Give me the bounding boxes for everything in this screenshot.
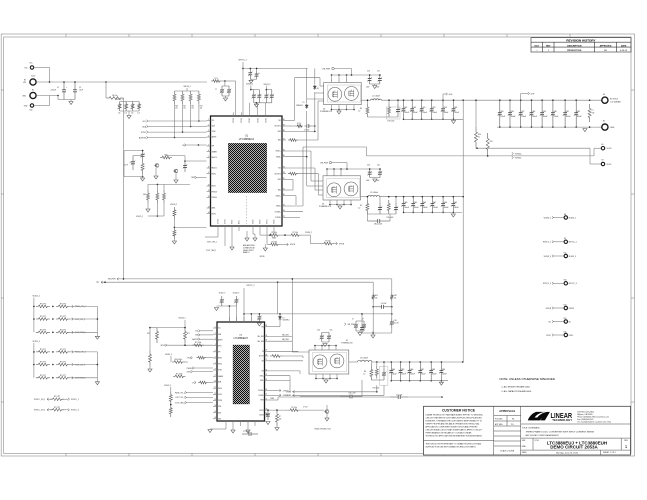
- svg-text:R13: R13: [200, 106, 203, 108]
- ground phase2 block: [338, 206, 342, 209]
- IC U2 left pin 8: [213, 369, 217, 371]
- resistor: [390, 293, 393, 301]
- svg-text:VOUT_CFG_2: VOUT_CFG_2: [207, 242, 217, 244]
- svg-text:HOWEVER, IT REMAINS THE CUSTOM: HOWEVER, IT REMAINS THE CUSTOMER'S RESPO…: [426, 419, 483, 422]
- svg-text:VCFG1: VCFG1: [225, 219, 227, 224]
- power block U4 bottom pins: [329, 200, 331, 205]
- svg-text:C58: C58: [432, 369, 435, 371]
- svg-text:E16: E16: [564, 331, 567, 333]
- wire: [174, 104, 176, 138]
- junction: [395, 196, 397, 198]
- wire netB left bus: [33, 346, 35, 378]
- resistor: [372, 293, 375, 301]
- svg-text:1. ALL RESISTORS ARE 0402.: 1. ALL RESISTORS ARE 0402.: [501, 386, 530, 389]
- svg-text:SCL: SCL: [195, 331, 198, 333]
- IC U1 right pin 29: [282, 205, 286, 207]
- IC U1 right pin 37: [282, 139, 286, 141]
- wire: [49, 96, 51, 106]
- svg-text:VDD33_3: VDD33_3: [165, 354, 172, 356]
- wire: [371, 379, 384, 381]
- svg-text:C8: C8: [130, 162, 132, 164]
- terminal: [602, 124, 608, 130]
- svg-text:TECHNOLOGY: TECHNOLOGY: [552, 418, 572, 422]
- svg-text:R? OPT: R? OPT: [40, 349, 46, 351]
- IC U1 right pin 39: [282, 125, 286, 127]
- svg-text:32: 32: [265, 325, 267, 327]
- resistor: [198, 381, 208, 384]
- svg-text:PERFORMANCE OR RELIABILITY. CO: PERFORMANCE OR RELIABILITY. CONTACT LINE…: [426, 431, 472, 434]
- junction: [367, 99, 369, 101]
- svg-text:C55: C55: [401, 369, 404, 371]
- power MOSFET bottom Q6: [344, 182, 358, 196]
- capacitor: [382, 368, 387, 380]
- capacitor: [354, 321, 359, 331]
- ground phase3 bank: [439, 382, 443, 385]
- resistor: [36, 318, 50, 321]
- wire: [170, 387, 172, 391]
- svg-text:100uF: 100uF: [500, 116, 505, 118]
- svg-text:29: 29: [265, 350, 267, 352]
- junction: [314, 131, 316, 133]
- svg-text:INTVCC_3: INTVCC_3: [543, 283, 551, 285]
- junction: [256, 102, 258, 104]
- wire: [316, 378, 337, 380]
- capacitor: [378, 169, 383, 178]
- svg-text:100uF: 100uF: [432, 112, 437, 114]
- svg-text:C46: C46: [423, 202, 426, 204]
- svg-text:16: 16: [214, 417, 216, 419]
- net connector: [552, 334, 554, 337]
- IC U1 top pin 3: [257, 112, 259, 116]
- net connector: [165, 344, 167, 347]
- svg-text:VDD33_3: VDD33_3: [544, 256, 551, 258]
- power MOSFET top Q3: [328, 87, 342, 101]
- wire: [250, 79, 252, 80]
- svg-text:POWERBLOCK: POWERBLOCK: [341, 343, 353, 345]
- svg-text:INTVCC_3: INTVCC_3: [71, 410, 79, 412]
- wire: [332, 109, 355, 111]
- wire netA row1 right: [70, 318, 98, 320]
- terminal: [564, 320, 567, 323]
- net connector: [512, 152, 514, 155]
- svg-text:TECHNOLOGY APPLICATIONS ENGINE: TECHNOLOGY APPLICATIONS ENGINEERING FOR …: [426, 434, 483, 437]
- wire netB right bus: [96, 352, 98, 382]
- svg-text:100uF: 100uF: [413, 112, 418, 114]
- resistor: [288, 409, 300, 412]
- junction: [372, 332, 374, 334]
- resistor: [141, 160, 144, 174]
- svg-text:L1 0.56uH: L1 0.56uH: [372, 95, 381, 97]
- IC U2 right pin 24: [265, 379, 269, 381]
- wire: [123, 151, 125, 177]
- svg-text:BOOST: BOOST: [259, 356, 264, 358]
- svg-text:C21: C21: [422, 107, 425, 109]
- wire: [334, 68, 351, 70]
- svg-text:E12: E12: [29, 110, 32, 112]
- wire INTVCC_2 rail right: [243, 67, 308, 69]
- svg-text:E11: E11: [25, 67, 28, 69]
- junction: [276, 409, 278, 411]
- svg-text:31: 31: [283, 188, 285, 190]
- svg-text:E1: E1: [24, 80, 26, 82]
- capacitor: [73, 82, 77, 100]
- junction INTVCC_3: [243, 313, 245, 315]
- svg-text:REVISION HISTORY: REVISION HISTORY: [566, 38, 596, 42]
- IC U1 left pin 12: [207, 196, 211, 198]
- net connector: [552, 320, 554, 323]
- wire netB row2 right: [70, 377, 98, 379]
- svg-text:CIRCUIT BOARD LAYOUT MAY SIGNI: CIRCUIT BOARD LAYOUT MAY SIGNIFICANTLY A…: [426, 428, 483, 431]
- wire: [366, 197, 368, 200]
- svg-text:38: 38: [283, 130, 285, 132]
- wire: [330, 204, 351, 206]
- resistor: [169, 405, 172, 417]
- ground comp: [141, 178, 145, 181]
- resistor R33: [138, 102, 141, 112]
- wire: [166, 155, 185, 157]
- wire: [372, 361, 391, 363]
- svg-text:VERIFY PROPER AND RELIABLE OPE: VERIFY PROPER AND RELIABLE OPERATION IN …: [426, 422, 480, 425]
- ground R76: [275, 428, 279, 431]
- svg-text:VIN_PWR: VIN_PWR: [108, 279, 116, 281]
- net connector: [146, 136, 148, 139]
- IC U2 right pin 29: [265, 350, 269, 352]
- resistor: [296, 125, 303, 128]
- ground U2 left: [208, 430, 212, 433]
- wire: [254, 102, 272, 104]
- svg-text:C59: C59: [442, 369, 445, 371]
- resistor: [388, 104, 391, 117]
- svg-text:10k: 10k: [175, 108, 178, 110]
- wire: [49, 68, 51, 83]
- svg-text:28: 28: [265, 354, 267, 356]
- capacitor: [220, 86, 225, 96]
- wire VOUT_CFG_2: [217, 231, 219, 237]
- wire: [70, 100, 72, 102]
- net connector: [47, 409, 49, 412]
- junction: [379, 168, 381, 170]
- svg-text:2.2k: 2.2k: [124, 113, 127, 115]
- wire VIN rail: [36, 81, 207, 83]
- net 47uF connector bulk: [520, 94, 522, 101]
- svg-text:D?: D?: [303, 102, 305, 104]
- svg-text:E15: E15: [564, 318, 567, 320]
- svg-text:2. ALL CAPACITORS ARE 0603.: 2. ALL CAPACITORS ARE 0603.: [501, 390, 532, 393]
- svg-text:100uF: 100uF: [421, 374, 426, 376]
- IC U2 right pin 22: [265, 394, 269, 396]
- ground arrow netB: [95, 382, 99, 385]
- svg-text:10k: 10k: [394, 297, 397, 299]
- resistor: [370, 366, 373, 380]
- wire: [346, 163, 348, 169]
- wire netA row0 right: [70, 305, 98, 307]
- net connector: [194, 381, 196, 384]
- svg-text:27: 27: [283, 216, 285, 218]
- wire: [184, 156, 186, 161]
- net connector: [68, 409, 70, 412]
- IC U1 top pin 0: [232, 112, 234, 116]
- diode: [313, 85, 316, 91]
- svg-text:3: 3: [208, 130, 209, 132]
- svg-text:PWGD_CPL_3: PWGD_CPL_3: [175, 392, 185, 394]
- IC U1 left pin 6: [207, 151, 211, 153]
- svg-text:TG: TG: [262, 351, 264, 353]
- capacitor C32 bulk: [574, 100, 579, 127]
- IC U2 bottom pin b4: [254, 421, 256, 426]
- junction: [256, 68, 258, 70]
- wire VIN_PWR to phase3: [291, 279, 293, 352]
- junction: [74, 81, 76, 83]
- svg-text:SW2: SW2: [278, 179, 281, 181]
- svg-text:INTVCC_2: INTVCC_2: [239, 60, 247, 62]
- junction: [314, 125, 316, 127]
- capacitor bank phase2 output: [403, 196, 405, 198]
- resistor R30: [118, 102, 121, 112]
- svg-text:8: 8: [208, 166, 209, 168]
- resistor: [56, 363, 70, 366]
- capacitor C47 phase2: [430, 197, 435, 213]
- resistor: [366, 104, 369, 117]
- resistor: [147, 190, 150, 203]
- svg-text:CUSTOMER NOTICE: CUSTOMER NOTICE: [442, 409, 476, 413]
- svg-text:R? OPT: R? OPT: [60, 329, 66, 331]
- svg-text:100uF: 100uF: [404, 207, 409, 209]
- svg-text:PGD0: PGD0: [218, 364, 222, 366]
- resistor: [36, 305, 50, 308]
- svg-text:R6: R6: [364, 371, 366, 373]
- ground phase3 top: [358, 333, 362, 336]
- svg-text:34: 34: [283, 166, 285, 168]
- junction VOUT tie 3: [462, 361, 464, 363]
- wire: [198, 104, 200, 121]
- IC U2 top pin t0: [228, 317, 230, 322]
- svg-text:R12: R12: [192, 106, 195, 108]
- wire down to gnd resistor: [149, 328, 151, 351]
- svg-text:6: 6: [208, 150, 209, 152]
- svg-text:VDD33_2: VDD33_2: [263, 84, 270, 86]
- svg-text:11: 11: [214, 387, 216, 389]
- svg-text:C54: C54: [392, 369, 395, 371]
- svg-text:100uF: 100uF: [392, 374, 397, 376]
- wire: [256, 68, 258, 71]
- IC U2 left pin 13: [213, 400, 217, 402]
- net connector: [446, 93, 448, 96]
- svg-text:20: 20: [265, 409, 267, 411]
- svg-text:VDD25_3: VDD25_3: [164, 385, 171, 387]
- svg-text:100uF: 100uF: [423, 207, 428, 209]
- svg-text:C32: C32: [577, 111, 580, 113]
- svg-text:14: 14: [214, 405, 216, 407]
- svg-text:R? OPT: R? OPT: [60, 375, 66, 377]
- svg-text:R? 100k: R? 100k: [195, 342, 201, 344]
- svg-text:TG2: TG2: [278, 168, 281, 170]
- terminal: [564, 240, 567, 243]
- IC U2 left pin 9: [213, 375, 217, 377]
- svg-text:R? OPT: R? OPT: [54, 396, 60, 398]
- wire: [332, 162, 347, 164]
- wire: [597, 126, 602, 128]
- IC U2 left pin 4: [213, 345, 217, 347]
- svg-text:5: 5: [208, 144, 209, 146]
- IC U1 left pin 9: [207, 173, 211, 175]
- IC U1 top pin 2: [249, 112, 251, 116]
- capacitor C55 phase3: [398, 362, 403, 381]
- svg-text:100uF: 100uF: [566, 116, 571, 118]
- svg-text:39: 39: [283, 124, 285, 126]
- resistor: [387, 200, 390, 214]
- svg-text:100uF: 100uF: [433, 207, 438, 209]
- wire: [266, 89, 271, 91]
- wire: [163, 184, 165, 190]
- svg-text:INTVCC_2: INTVCC_2: [569, 242, 577, 244]
- IC U2 left pin 12: [213, 393, 217, 395]
- svg-text:C16: C16: [367, 71, 370, 73]
- junction: [397, 99, 399, 101]
- svg-text:INTVCC_ON_3: INTVCC_ON_3: [34, 410, 45, 412]
- IC U1 right pin 33: [282, 173, 286, 175]
- ground R73: [148, 369, 152, 372]
- svg-text:WL: WL: [512, 419, 515, 421]
- capacitor: [305, 124, 312, 128]
- wire: [34, 67, 50, 69]
- terminal: [30, 79, 36, 85]
- svg-text:30: 30: [283, 194, 285, 196]
- capacitor C22 output: [429, 100, 434, 119]
- wire INTVCC_3 rail to cluster: [244, 313, 340, 315]
- wire U2 pins right bottom: [269, 409, 289, 411]
- svg-text:1uF: 1uF: [592, 112, 595, 114]
- svg-text:C30: C30: [554, 111, 557, 113]
- resistor: [588, 104, 591, 122]
- svg-text:36: 36: [283, 149, 285, 151]
- svg-text:C20: C20: [413, 107, 416, 109]
- svg-text:10uF: 10uF: [376, 87, 380, 89]
- svg-text:22: 22: [265, 394, 267, 396]
- capacitor: [360, 324, 365, 333]
- net connector: [72, 331, 74, 334]
- net connector: [528, 92, 530, 95]
- IC U2 top pin t3: [250, 317, 252, 322]
- svg-text:VDD25_3: VDD25_3: [219, 293, 226, 295]
- capacitor: [248, 68, 253, 79]
- wire: [361, 196, 369, 198]
- capacitor: [367, 219, 390, 223]
- ground C63: [266, 422, 270, 425]
- svg-text:R71: R71: [187, 333, 190, 335]
- svg-text:LTC Confidential-For Customer: LTC Confidential-For Customer Use Only: [577, 421, 611, 424]
- svg-text:INTVCC_3: INTVCC_3: [247, 285, 255, 287]
- capacitor: [227, 86, 232, 96]
- resistor: [160, 156, 172, 159]
- svg-text:R5: R5: [360, 205, 362, 207]
- svg-text:R24: R24: [375, 295, 378, 297]
- svg-text:GND: GND: [610, 127, 615, 129]
- net connector: [191, 356, 193, 359]
- wire: [368, 116, 399, 118]
- IC U1 right pin 38: [282, 130, 286, 132]
- capacitor: [264, 90, 269, 103]
- svg-text:100uF: 100uF: [442, 374, 447, 376]
- svg-text:VDD33: VDD33: [241, 118, 243, 123]
- svg-text:VDD33: VDD33: [249, 118, 251, 123]
- power MOSFET bottom Q8: [330, 354, 344, 368]
- svg-text:25: 25: [265, 374, 267, 376]
- svg-text:WP: WP: [218, 352, 220, 354]
- IC U2 right pin 20: [265, 409, 269, 411]
- capacitor: [266, 410, 271, 420]
- capacitor C28 bulk: [529, 100, 534, 127]
- svg-text:2.2k: 2.2k: [118, 113, 121, 115]
- svg-text:100uF: 100uF: [444, 207, 449, 209]
- capacitor C44 phase2: [401, 197, 406, 213]
- svg-text:D1: D1: [317, 88, 319, 90]
- svg-text:51: 51: [478, 136, 480, 138]
- resistor: [173, 375, 186, 378]
- IC U2 exposed pad hatch: [233, 345, 250, 404]
- svg-text:D?: D?: [283, 318, 285, 320]
- svg-text:THIS CIRCUIT IS PROPRIETARY TO: THIS CIRCUIT IS PROPRIETARY TO LINEAR TE…: [426, 443, 482, 446]
- svg-text:13: 13: [214, 399, 216, 401]
- IC U1 bottom pin 6: [266, 226, 268, 231]
- junction: [441, 396, 443, 398]
- wire VSNS lines bottom: [292, 391, 377, 393]
- svg-text:IC NO.: IC NO.: [535, 440, 540, 442]
- capacitor: [252, 90, 257, 103]
- svg-text:ISNS-: ISNS-: [260, 380, 264, 382]
- IC U2 left pin 16: [213, 418, 217, 420]
- svg-text:VOSNS+: VOSNS+: [275, 211, 281, 213]
- wire: [120, 101, 140, 103]
- svg-text:ISNS+: ISNS+: [260, 375, 264, 377]
- IC U2 top pin t1: [235, 317, 237, 322]
- wire: [124, 150, 143, 152]
- capacitor: [234, 296, 239, 306]
- svg-text:R?: R?: [279, 416, 281, 418]
- wire: [356, 320, 364, 322]
- svg-text:STBL: STBL: [218, 406, 222, 408]
- wire: [167, 344, 213, 346]
- junction: [383, 361, 385, 363]
- capacitor bank phase1 bulk: [499, 99, 501, 101]
- svg-text:GPIOB: GPIOB: [160, 345, 165, 347]
- wire INTVCC_3 to U2: [243, 288, 245, 322]
- svg-text:10k: 10k: [200, 108, 203, 110]
- svg-text:PCB DES.: PCB DES.: [495, 419, 503, 421]
- junction: [250, 68, 252, 70]
- svg-text:BOOST1: BOOST1: [275, 126, 281, 128]
- junction: [388, 99, 390, 101]
- junction VOUT tie 2: [462, 196, 464, 198]
- net connector: [195, 176, 197, 179]
- svg-text:VDD33: VDD33: [259, 415, 264, 417]
- svg-text:R? OPT: R? OPT: [40, 362, 46, 364]
- svg-text:VIN_PWR: VIN_PWR: [320, 162, 328, 164]
- junction: [184, 327, 186, 329]
- wire bank2 gnd bus: [497, 126, 597, 128]
- IC U1 left pin 8: [207, 167, 211, 169]
- svg-text:C17: C17: [377, 71, 380, 73]
- svg-text:27: 27: [265, 359, 267, 361]
- capacitor: [327, 332, 332, 342]
- capacitor C56 phase3: [407, 362, 412, 381]
- IC U1 right pin 40: [282, 119, 286, 121]
- capacitor bank phase1 output: [403, 99, 405, 101]
- diode: [278, 315, 281, 321]
- svg-text:E10: E10: [564, 252, 567, 254]
- svg-text:C29: C29: [543, 111, 546, 113]
- wire: [382, 99, 404, 101]
- capacitor: [140, 151, 145, 160]
